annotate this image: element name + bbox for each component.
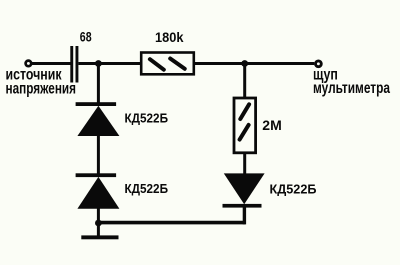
wire: node A down to diode VD1 (97, 64, 100, 103)
svg-text:КД522Б: КД522Б (125, 111, 169, 126)
resistor R2 2M (234, 98, 256, 153)
wire: resistor 2M to diode VD3 (243, 152, 246, 174)
svg-text:2М: 2М (262, 117, 281, 133)
diode VD1 КД522Б (up) (76, 102, 120, 136)
node B junction dot (241, 60, 248, 67)
svg-text:68: 68 (80, 30, 92, 45)
terminal: щуп мультиметра (316, 61, 322, 67)
node A junction dot (95, 60, 102, 67)
wire: VD3 down to bottom wire (243, 207, 246, 224)
diode VD2 КД522Б (up) (76, 173, 120, 209)
node C junction dot (95, 220, 102, 227)
ground (81, 224, 118, 240)
svg-text:180k: 180k (155, 30, 184, 45)
capacitor C 68 (70, 46, 78, 83)
svg-text:мультиметра: мультиметра (313, 80, 390, 97)
wire: VD2 to ground node (97, 208, 100, 225)
terminal: источник напряжения (26, 61, 32, 67)
svg-text:напряжения: напряжения (6, 81, 77, 98)
label источник напряжения (6, 66, 77, 97)
svg-text:КД522Б: КД522Б (125, 181, 169, 196)
svg-text:КД522Б: КД522Б (270, 181, 317, 196)
label щуп мультиметра (313, 67, 390, 97)
wire: node B down to resistor 2M (243, 64, 246, 99)
resistor R1 180k (141, 53, 194, 75)
wire: bottom return to ground node (98, 221, 245, 225)
wire: terminal to capacitor (32, 62, 71, 65)
wire: VD1 to VD2 (97, 135, 100, 174)
diode VD3 КД522Б (down) (223, 173, 265, 207)
wire: capacitor to resistor 180k (78, 62, 141, 65)
wire: resistor to probe terminal (195, 62, 314, 65)
